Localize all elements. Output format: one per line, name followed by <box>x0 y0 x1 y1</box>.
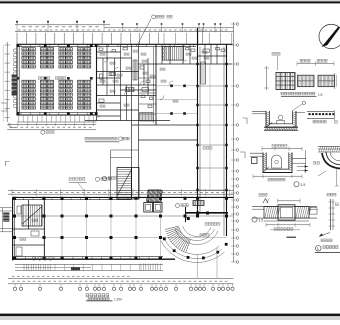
colonnade extension ticks <box>17 33 232 44</box>
trench detail 4 label <box>294 182 305 187</box>
plank detail left block <box>276 73 295 90</box>
sheet border top line <box>0 1 340 3</box>
right wing walls <box>198 28 227 236</box>
fan lower grid lines <box>198 248 218 278</box>
trench detail 4 body <box>250 153 308 173</box>
right dimension band <box>231 22 239 263</box>
hall top dimension lines <box>8 189 234 196</box>
bottom margin strip <box>0 316 340 320</box>
gutter detail right slab <box>307 110 337 123</box>
right section bar <box>327 193 338 230</box>
wing duct shaft <box>201 62 206 84</box>
svg-text:1:5: 1:5 <box>301 183 306 187</box>
kitchen block top wall <box>97 44 233 46</box>
hall outer walls <box>12 197 234 260</box>
kitchen room labels <box>100 50 209 107</box>
arrow mark bottom right <box>319 233 332 242</box>
corner mark gamma <box>6 162 10 167</box>
kitchen caption with underline <box>85 137 129 142</box>
kitchen interior walls <box>85 44 232 199</box>
left dimension line of dining block <box>3 42 10 122</box>
trench detail 4 dimensions <box>253 144 306 181</box>
joint detail 8 top marks <box>259 193 300 203</box>
middle stair block <box>111 150 140 199</box>
joint detail 8 body <box>252 205 317 221</box>
toilet fixtures <box>32 257 52 261</box>
hall left rooms <box>13 200 45 258</box>
bottom dimension lines <box>8 276 234 284</box>
svg-text:1:100: 1:100 <box>114 298 122 302</box>
fan corner walls <box>185 201 228 223</box>
top dimension lines <box>15 23 234 33</box>
gutter section detail <box>252 101 305 130</box>
escalator hatched block <box>146 190 163 202</box>
dining hall outer wall <box>17 44 97 115</box>
separator dash <box>287 236 297 238</box>
fan labels <box>176 204 220 237</box>
sheet border bottom line <box>0 314 340 317</box>
dining hall aisle labels <box>39 77 66 80</box>
right bracket mark <box>240 152 245 158</box>
kitchen fixtures <box>96 48 225 121</box>
hall columns <box>13 197 228 260</box>
right wing floor lines <box>196 63 227 191</box>
bottom porch band <box>15 264 163 271</box>
corner mark L <box>10 123 16 128</box>
bottom grid bubbles <box>13 284 234 291</box>
top margin strip <box>0 0 340 1</box>
leader to level mark <box>138 15 173 45</box>
porch band under dining hall <box>17 115 97 122</box>
plank detail caption <box>281 92 323 97</box>
svg-text:1:5: 1:5 <box>259 218 264 222</box>
elevator shafts <box>144 203 162 213</box>
left entrance porch <box>0 208 13 232</box>
svg-text:1:5: 1:5 <box>318 93 323 97</box>
dining hall left service counter <box>12 49 17 107</box>
hall leader labels <box>69 177 111 190</box>
top grid bubbles <box>16 21 221 25</box>
joint detail 8 label <box>252 217 263 222</box>
left wall outside bracket <box>1 103 7 111</box>
gutter left bracket mark <box>243 118 248 124</box>
middle stair label <box>102 176 116 180</box>
joint detail 8 bottom dims <box>266 223 310 231</box>
level mark under dining hall <box>41 130 54 134</box>
detail index title <box>315 246 340 253</box>
plank detail dimension lines <box>264 53 334 91</box>
fan stair arcs <box>161 226 228 262</box>
north arrow circle <box>319 24 340 48</box>
plank detail right bars <box>298 73 337 89</box>
kitchen stair <box>163 47 184 61</box>
plan title <box>86 294 122 302</box>
dimension lines under dining hall <box>7 123 96 130</box>
dining hall columns <box>17 44 98 115</box>
corner flashing detail <box>314 146 340 186</box>
wing corridor label <box>203 147 212 150</box>
dining tables grid <box>22 48 91 109</box>
hall interior grid <box>14 200 234 257</box>
hall left stair <box>22 205 42 226</box>
